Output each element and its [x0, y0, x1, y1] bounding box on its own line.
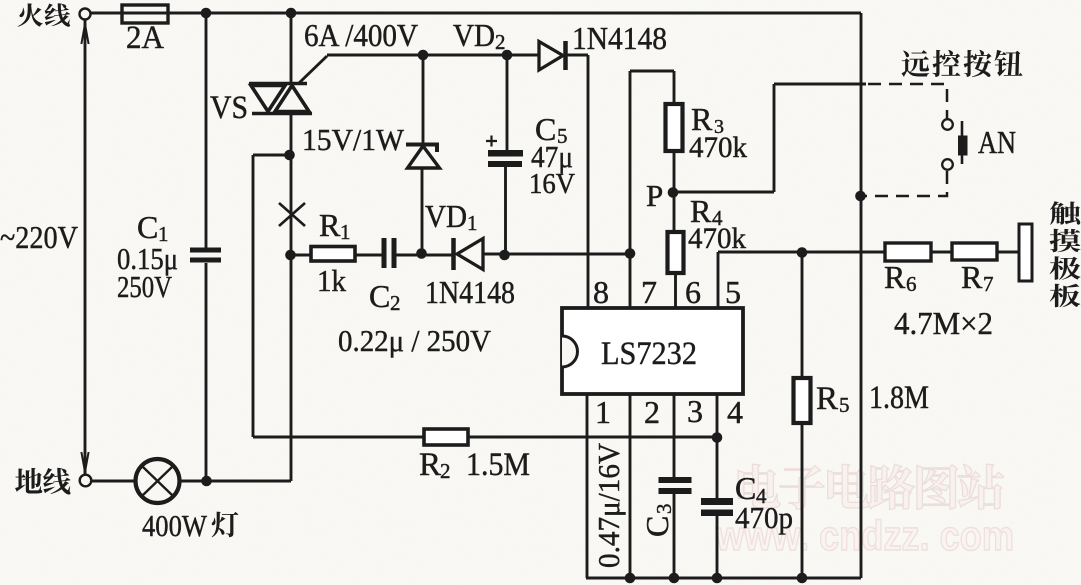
arrow down at neutral terminal — [81, 452, 88, 472]
wire: pin5 riser — [717, 252, 720, 309]
node: R5 top — [797, 247, 808, 258]
svg-text:5: 5 — [725, 274, 741, 310]
wire: pin2 riser — [629, 395, 632, 578]
svg-text:470k: 470k — [688, 222, 746, 255]
wire: right vertical common line — [860, 13, 863, 578]
node P — [668, 187, 679, 198]
resistor R4 470k — [668, 232, 684, 273]
wire: R1 to C2 — [355, 254, 382, 257]
label 触摸极板 — [1050, 201, 1081, 307]
svg-text:470k: 470k — [689, 131, 747, 164]
svg-text:C: C — [639, 516, 675, 537]
pushbutton AN contacts — [942, 119, 953, 130]
svg-text:7: 7 — [983, 272, 994, 296]
zener diode 15V/1W — [406, 145, 437, 153]
wire: pin6 riser — [674, 273, 677, 309]
node: pin4 bottom — [712, 573, 723, 584]
IC LS7232 body — [562, 308, 743, 394]
svg-text:250V: 250V — [117, 269, 172, 304]
wire: R6 to R7 — [931, 251, 952, 254]
wire: pin3 riser lower — [673, 494, 676, 578]
pushbutton AN actuator — [961, 121, 964, 164]
X mark on triac line — [279, 203, 305, 226]
svg-text:2: 2 — [390, 291, 401, 315]
svg-text:1: 1 — [595, 394, 611, 430]
diode VD2 — [539, 42, 563, 71]
wire: remote loop vertical — [773, 84, 776, 192]
capacitor C2 — [382, 238, 387, 268]
svg-text:1: 1 — [467, 211, 478, 235]
wire: C5 top lead — [506, 55, 509, 150]
wire: bottom common rail — [586, 577, 861, 580]
svg-text:2A: 2A — [126, 20, 164, 56]
wire: 15V tap horizontal — [253, 154, 290, 157]
resistor R5 — [794, 378, 811, 423]
svg-text:R: R — [419, 447, 441, 483]
dashed remote wire top — [868, 84, 947, 120]
wire: C1 branch vertical upper — [205, 13, 208, 248]
IC notch — [562, 336, 578, 367]
lamp 400W — [91, 480, 136, 483]
svg-text:6: 6 — [685, 274, 701, 310]
label 火线 — [18, 3, 70, 26]
wire: R3 top lead — [673, 71, 676, 104]
wire: R5 to common rail — [801, 424, 804, 578]
svg-text:AN: AN — [978, 124, 1016, 160]
svg-text:4: 4 — [727, 394, 743, 430]
svg-text:3: 3 — [687, 393, 703, 429]
node: zener to R1 wire — [416, 248, 427, 259]
svg-text:4.7M×2: 4.7M×2 — [894, 305, 993, 341]
node: top rail junction at triac — [286, 8, 297, 19]
svg-text:1.5M: 1.5M — [466, 447, 530, 483]
wire: C2 to VD1 — [396, 254, 453, 257]
svg-text:R: R — [884, 259, 906, 295]
svg-text:LS7232: LS7232 — [601, 336, 697, 372]
fuse 2A — [122, 5, 168, 23]
svg-text:400W: 400W — [142, 508, 208, 543]
wire: pin3 riser upper — [673, 395, 676, 477]
svg-text:0.47μ/16V: 0.47μ/16V — [591, 442, 626, 568]
svg-text:2: 2 — [495, 30, 506, 54]
label 地线 — [15, 468, 70, 495]
wire: remote loop horizontal — [774, 83, 866, 86]
wire: top live rail — [85, 12, 861, 15]
wire: R7 to touch plate — [997, 251, 1019, 254]
wire: pin4 riser upper — [716, 395, 719, 498]
wire: lamp to triac line — [179, 480, 291, 483]
svg-text:C: C — [137, 209, 158, 245]
svg-text:~220V: ~220V — [0, 219, 78, 255]
node: remote to common line — [855, 191, 866, 202]
wire: touch row — [718, 251, 885, 254]
label C3 rotated — [639, 504, 676, 538]
arrow up at live terminal — [81, 24, 88, 44]
node: pin3 bottom — [669, 573, 680, 584]
svg-text:1.8M: 1.8M — [869, 380, 929, 416]
wire: C5 bottom lead — [504, 167, 507, 255]
terminal 地线 — [80, 475, 92, 487]
node: zener tap — [418, 50, 429, 61]
dashed remote wire bottom — [864, 171, 947, 196]
resistor R6 — [885, 243, 931, 261]
svg-text:5: 5 — [839, 393, 850, 417]
wire: C1 branch vertical lower — [205, 263, 208, 481]
diode VD1 — [451, 238, 456, 270]
resistor R3 470k — [666, 104, 683, 151]
label 灯 — [212, 512, 239, 538]
node: 15V tap on triac line — [284, 150, 295, 161]
wire: gate / VD2 horizontal — [327, 54, 539, 57]
node: top rail junction at C1 — [201, 8, 212, 19]
wire: R2 row left — [253, 436, 424, 439]
resistor R7 — [952, 243, 997, 260]
svg-text:VD: VD — [425, 198, 467, 234]
capacitor C1 — [190, 248, 221, 253]
svg-text:6A /400V: 6A /400V — [304, 17, 418, 53]
capacitor C3 — [659, 477, 692, 483]
svg-text:1N4148: 1N4148 — [425, 274, 515, 310]
svg-text:R: R — [816, 381, 838, 417]
wire: VD1 to pin7 — [483, 253, 630, 256]
wire: pin1 riser — [586, 395, 589, 578]
svg-text:P: P — [646, 178, 663, 213]
svg-text:15V/1W: 15V/1W — [302, 122, 405, 157]
resistor R2 1.5M — [424, 429, 468, 445]
wire: pin8 riser — [587, 55, 590, 309]
node: pin7 junction on R1 wire — [625, 248, 636, 259]
wire: pin4 riser lower — [716, 516, 719, 578]
node: pin4 to R2 — [712, 432, 723, 443]
wire: R2 row right — [468, 436, 717, 439]
node: C1 bottom junction — [201, 476, 212, 487]
capacitor C5 — [488, 150, 523, 157]
wire: x253 vertical — [252, 155, 255, 437]
svg-text:2: 2 — [644, 394, 660, 430]
svg-text:1: 1 — [340, 220, 351, 244]
svg-text:470p: 470p — [735, 500, 793, 535]
svg-text:8: 8 — [593, 274, 609, 310]
wire: left ~220V vertical — [84, 20, 87, 474]
wire: bracket pin7 to R3 — [630, 70, 674, 73]
resistor R1 1k — [311, 247, 355, 262]
svg-text:2: 2 — [440, 459, 451, 483]
capacitor C4 — [701, 498, 733, 505]
svg-text:C: C — [369, 278, 390, 314]
svg-text:R: R — [961, 259, 983, 295]
wire: triac line to R1 — [291, 254, 311, 257]
svg-text:7: 7 — [641, 274, 657, 310]
wire: VD2 cathode corner — [565, 54, 588, 57]
wire: zener bottom lead — [421, 168, 424, 254]
wire: R3 to R4 through node P — [673, 151, 676, 232]
node: R5 bottom — [797, 573, 808, 584]
wire: triac gate diagonal — [299, 56, 327, 83]
wire: zener top lead — [422, 55, 425, 144]
svg-text:0.22μ / 250V: 0.22μ / 250V — [338, 323, 492, 358]
svg-text:VS: VS — [210, 90, 248, 126]
node: R1 wire start on triac line — [285, 250, 296, 261]
svg-text:1k: 1k — [317, 263, 346, 298]
wire: P horizontal — [674, 191, 774, 194]
watermark text1 — [738, 464, 1003, 509]
triac VS — [249, 84, 312, 114]
wire: pin7 riser — [629, 71, 632, 309]
terminal 火线 — [80, 9, 91, 20]
label 远控按钮 — [902, 50, 1023, 77]
svg-text:16V: 16V — [529, 169, 575, 200]
svg-text:VD: VD — [453, 17, 495, 53]
svg-text:6: 6 — [906, 272, 917, 296]
wire: R5 branch — [801, 252, 804, 378]
svg-text:R: R — [319, 207, 341, 243]
svg-text:3: 3 — [652, 504, 676, 515]
wire: triac vertical upper — [290, 13, 293, 84]
touch plate — [1019, 224, 1032, 281]
node: C5 tap — [502, 50, 513, 61]
wire: triac vertical lower — [290, 114, 293, 481]
node: C5 to R1 wire — [499, 250, 510, 261]
node: pin2 bottom — [625, 573, 636, 584]
svg-text:1N4148: 1N4148 — [572, 20, 667, 56]
